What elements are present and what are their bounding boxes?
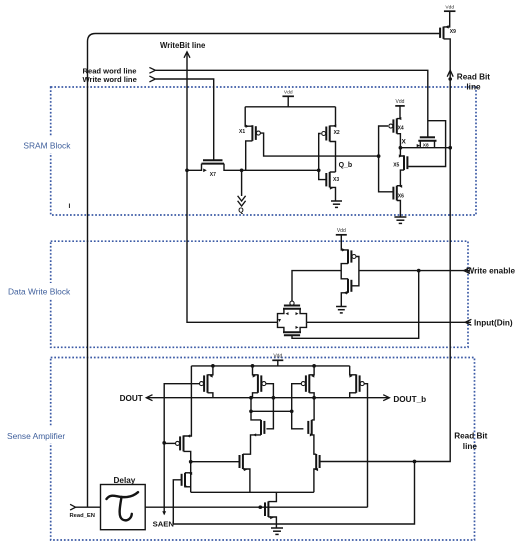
svg-text:Vdd: Vdd bbox=[273, 354, 282, 360]
svg-text:SAEN: SAEN bbox=[153, 519, 175, 528]
svg-text:Sense Amplifier: Sense Amplifier bbox=[7, 431, 65, 441]
svg-text:Vdd: Vdd bbox=[445, 4, 454, 10]
svg-text:WriteBit line: WriteBit line bbox=[160, 41, 206, 50]
svg-text:X4: X4 bbox=[398, 125, 404, 131]
svg-text:Vdd: Vdd bbox=[284, 90, 293, 96]
svg-text:Delay: Delay bbox=[114, 476, 136, 485]
svg-text:Vdd: Vdd bbox=[396, 99, 405, 105]
svg-text:I: I bbox=[69, 203, 71, 210]
svg-text:Q_b: Q_b bbox=[339, 162, 353, 169]
svg-text:X7: X7 bbox=[210, 172, 216, 178]
svg-text:Read_EN: Read_EN bbox=[70, 513, 95, 519]
svg-text:line: line bbox=[466, 83, 481, 92]
svg-text:X1: X1 bbox=[239, 129, 245, 135]
svg-text:DOUT_b: DOUT_b bbox=[393, 395, 426, 404]
svg-text:X: X bbox=[402, 138, 407, 145]
svg-text:SRAM Block: SRAM Block bbox=[23, 141, 71, 151]
svg-text:Q: Q bbox=[238, 208, 244, 215]
svg-text:X9: X9 bbox=[450, 29, 456, 35]
svg-text:Vdd: Vdd bbox=[337, 228, 346, 234]
svg-text:X6: X6 bbox=[398, 193, 404, 199]
svg-text:X2: X2 bbox=[334, 130, 340, 136]
svg-text:Input(Din): Input(Din) bbox=[474, 318, 513, 327]
svg-text:Write enable: Write enable bbox=[467, 266, 516, 275]
svg-text:X8: X8 bbox=[423, 142, 429, 148]
svg-text:X3: X3 bbox=[333, 177, 339, 183]
svg-text:DOUT: DOUT bbox=[120, 394, 143, 403]
svg-text:Read Bit: Read Bit bbox=[454, 432, 487, 441]
svg-text:X5: X5 bbox=[393, 162, 399, 168]
svg-text:Read Bit: Read Bit bbox=[457, 73, 490, 82]
svg-text:Write word line: Write word line bbox=[83, 75, 137, 84]
svg-text:line: line bbox=[463, 442, 478, 451]
svg-text:Data Write Block: Data Write Block bbox=[8, 287, 71, 297]
